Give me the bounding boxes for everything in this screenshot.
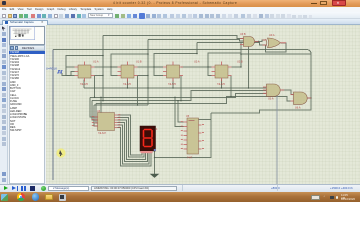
svg-text:74LS76: 74LS76	[217, 84, 226, 86]
wire R rail	[84, 87, 266, 89]
wire left rail down	[52, 50, 54, 181]
wire Qb2 tie	[138, 75, 149, 77]
window buttons	[311, 3, 317, 4]
green circle	[41, 186, 46, 191]
xor gate U4:A	[263, 34, 287, 48]
wire Q2 to FF3	[138, 66, 164, 68]
cursor halo	[56, 148, 65, 157]
svg-text:1: 1	[156, 127, 158, 131]
wire net QA staircase	[94, 104, 148, 106]
wire R stub FF4	[221, 80, 223, 89]
flip-flop U2:B	[212, 61, 243, 87]
wire clock input jog	[62, 72, 75, 76]
wire box top FF3	[154, 54, 197, 76]
flip-flop U1:A	[75, 61, 99, 87]
wire long feedback rail	[53, 50, 311, 99]
tab bar	[0, 19, 360, 25]
wire Q2 top feed to U3:B	[148, 40, 244, 42]
svg-text:U=RCLK: U=RCLK	[46, 67, 57, 71]
wire box top FF1	[66, 56, 103, 76]
wire second rail	[241, 53, 311, 55]
svg-text:U6:A: U6:A	[295, 107, 301, 110]
device list	[9, 51, 45, 184]
wire FF4 Qb drop	[230, 76, 232, 97]
wire decoder input B	[92, 101, 98, 120]
wire R stub FF1	[83, 80, 85, 89]
wire net QD staircase	[96, 96, 291, 103]
toolbar	[0, 12, 360, 19]
wire net QC run	[90, 93, 266, 97]
left tool column	[0, 25, 8, 184]
wire decoder input A	[90, 97, 98, 117]
wire right IC box	[155, 113, 212, 158]
wire Q3 to FF4	[181, 66, 212, 68]
wire U5 feed 2	[175, 97, 184, 126]
wire U5 feed 1	[178, 101, 184, 122]
wire riser node Q3	[196, 43, 198, 54]
wire U3:A out to U6:A	[282, 90, 294, 95]
svg-text:U2:A: U2:A	[194, 61, 200, 64]
wire segment d	[118, 123, 148, 162]
wire net QB staircase	[92, 91, 266, 101]
svg-text:U3:A: U3:A	[268, 98, 274, 101]
wire box top FF4	[208, 53, 241, 76]
stop	[30, 186, 35, 191]
step	[12, 186, 16, 190]
wire U6:A out node	[308, 97, 312, 99]
wire decoder input C	[96, 103, 98, 123]
wire riser node Q4	[240, 43, 242, 68]
wire gray rail right	[276, 85, 278, 184]
svg-text:U4:A: U4:A	[269, 34, 275, 37]
ground	[151, 174, 159, 178]
taskbar	[0, 192, 360, 202]
svg-text:U1:A: U1:A	[93, 61, 99, 64]
wire right IC top pin	[199, 119, 212, 121]
wire riser node Q2	[147, 40, 149, 106]
pause	[21, 186, 23, 191]
wire U6:A out down run	[211, 98, 311, 113]
P L / DEVICES header	[9, 45, 45, 51]
wire Qb1 tie	[95, 75, 104, 77]
wire segment e	[118, 125, 150, 164]
wire Q4 tie	[232, 66, 242, 68]
IC U5	[181, 115, 204, 160]
wire U3:B output to U4:A input	[255, 40, 266, 42]
status bar	[0, 184, 360, 192]
svg-text:U1:B: U1:B	[136, 61, 142, 64]
svg-text:74LS76: 74LS76	[123, 84, 132, 86]
wire box top FF2	[111, 54, 148, 76]
play	[4, 186, 8, 190]
svg-text:U2:B: U2:B	[237, 61, 243, 64]
wire segment c	[118, 120, 146, 159]
flip-flop U2:A	[163, 61, 200, 87]
wire decoder input D	[94, 105, 98, 126]
message box	[48, 186, 89, 192]
flip-flop U1:B	[118, 61, 142, 87]
svg-text:74LS76: 74LS76	[80, 84, 89, 86]
svg-text:U5: U5	[186, 115, 190, 118]
wire U3:B third input	[244, 44, 249, 88]
wire display common to ground	[154, 151, 156, 174]
wire Q1 top feed to U3:B	[103, 36, 244, 39]
schematic area	[46, 25, 360, 184]
svg-text:74LS76: 74LS76	[168, 84, 177, 86]
7-segment display	[140, 126, 158, 153]
overview minimap	[9, 26, 45, 45]
wire segment b	[118, 118, 144, 158]
wire U4:A feedback loop	[266, 43, 287, 52]
clock generator RCLK	[46, 67, 63, 74]
wire Q3 feed to U4:A	[197, 43, 266, 46]
wire FF3 Qb drop	[180, 76, 182, 101]
svg-text:7447: 7447	[187, 158, 193, 160]
wire segment f	[118, 128, 152, 167]
svg-text:U3:B: U3:B	[240, 33, 246, 36]
svg-text:74LS47: 74LS47	[98, 133, 107, 135]
left panel	[8, 25, 46, 184]
wire FF2 Qb drop	[137, 76, 139, 106]
wire FF1 Qb drop	[94, 76, 96, 98]
wire R stub FF3	[172, 80, 174, 89]
menu bar	[0, 7, 360, 12]
wire riser node Q1	[102, 36, 104, 101]
and gate U6:A	[291, 92, 312, 110]
decoder U6 74LS47	[92, 110, 121, 135]
wire R stub FF2	[127, 80, 129, 89]
wire decoder top feed	[100, 97, 102, 113]
title bar	[0, 0, 360, 7]
wire segment a	[118, 115, 143, 155]
and gate U3:B	[240, 33, 259, 47]
and gate U3:A	[263, 84, 284, 101]
wire Q1 to FF2	[95, 66, 118, 68]
